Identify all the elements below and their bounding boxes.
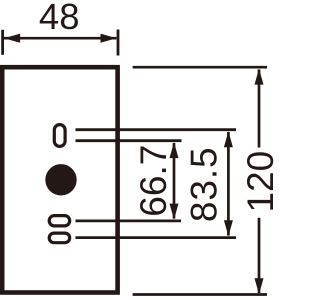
leader line 2: top slot lower center (76, 139, 182, 142)
dim 48 line (4, 37, 116, 40)
dim 120 line upper segment (258, 70, 261, 148)
bottom reference line (plate bottom) (133, 293, 267, 296)
svg-text:83.5: 83.5 (184, 146, 225, 222)
dim 48 arrow right (101, 34, 117, 43)
dim 83.5 line (227, 132, 230, 236)
dim 83.5 arrow up (224, 131, 233, 147)
svg-text:66.7: 66.7 (133, 145, 174, 217)
knockout hole (filled circle) (45, 164, 76, 195)
dim 66.7 line (173, 143, 176, 219)
dim 48 extension tick right (117, 30, 120, 56)
slot bottom 1 (horizontal pill hole) (49, 216, 69, 226)
dim 120 line lower segment (258, 218, 261, 293)
dim 83.5 arrow down (224, 220, 233, 236)
svg-text:48: 48 (39, 0, 80, 37)
svg-text:120: 120 (240, 151, 274, 213)
dim 48 arrow left (4, 34, 20, 43)
top reference line (plate top) (133, 66, 267, 69)
dim 120 arrow down (255, 278, 264, 294)
leader line 1: top slot upper center (76, 128, 237, 131)
dim 120 arrow up (255, 69, 264, 85)
slot bottom 2 (horizontal pill hole) (49, 233, 69, 243)
slot top (vertical pill hole) (54, 125, 65, 147)
dim 66.7 arrow down (170, 204, 179, 220)
leader line 4: bottom slot 2 center (76, 236, 237, 239)
leader line 3: bottom slot 1 center (76, 219, 182, 222)
dim 48 extension tick left (1, 30, 4, 55)
plate outline (2, 67, 117, 292)
dim 66.7 arrow up (170, 142, 179, 158)
